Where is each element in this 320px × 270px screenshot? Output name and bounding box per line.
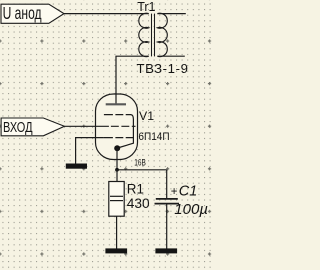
transformer Tr1 core (151, 14, 153, 57)
g3-to-cathode link (119, 115, 133, 148)
capacitor C1 bottom plate (155, 203, 180, 205)
svg-text:16В: 16В (134, 157, 146, 168)
grid g2 (dashed) (111, 125, 136, 127)
svg-text:R1: R1 (127, 181, 144, 196)
transformer Tr1 primary winding (139, 13, 149, 56)
resistor R1 power marks (110, 195, 123, 197)
svg-text:Tr1: Tr1 (137, 0, 155, 14)
wire R1 to ground (116, 216, 118, 248)
cathode junction dot (114, 145, 120, 151)
ground (C1) (155, 248, 177, 253)
paper background (0, 0, 212, 270)
svg-text:U анод: U анод (3, 3, 42, 23)
junction dot (cathode node) (115, 168, 119, 172)
svg-text:C1: C1 (179, 184, 198, 200)
ground (input) (66, 164, 87, 169)
wire secondary bottom stub (157, 55, 184, 57)
svg-text:6П14П: 6П14П (138, 131, 169, 143)
wire Tr1 primary bottom to anode (116, 56, 149, 103)
capacitor C1 top plate (156, 198, 178, 200)
grid g1 (dashed) (104, 137, 134, 139)
svg-text:ВХОД: ВХОД (3, 119, 33, 136)
wire grid return to ground (76, 138, 104, 164)
svg-text:+: + (171, 186, 178, 198)
resistor R1 body (109, 182, 124, 217)
wire C1 to ground (166, 204, 168, 249)
svg-text:430: 430 (127, 196, 150, 211)
transformer Tr1 secondary winding (157, 13, 167, 56)
svg-text:100µ: 100µ (174, 201, 208, 218)
wire junction to R1 (116, 170, 118, 182)
ground (R1) (105, 248, 127, 253)
grid g3 (dashed, tied to cathode) (104, 114, 131, 116)
wire cathode junction horizontal (117, 169, 167, 171)
wire cathode down (116, 148, 118, 170)
node U_anode flag (1, 3, 64, 23)
tube V1 envelope (96, 94, 138, 160)
wire junction to C1 (166, 170, 168, 199)
svg-text:ТВЗ-1-9: ТВЗ-1-9 (137, 61, 189, 76)
wire secondary top stub (157, 13, 185, 15)
wire input to control grid (64, 125, 109, 127)
anode plate (106, 103, 126, 105)
node VXOD input flag (1, 118, 64, 136)
svg-text:V1: V1 (139, 109, 154, 123)
wire U_anode to Tr1 primary top (64, 13, 149, 15)
